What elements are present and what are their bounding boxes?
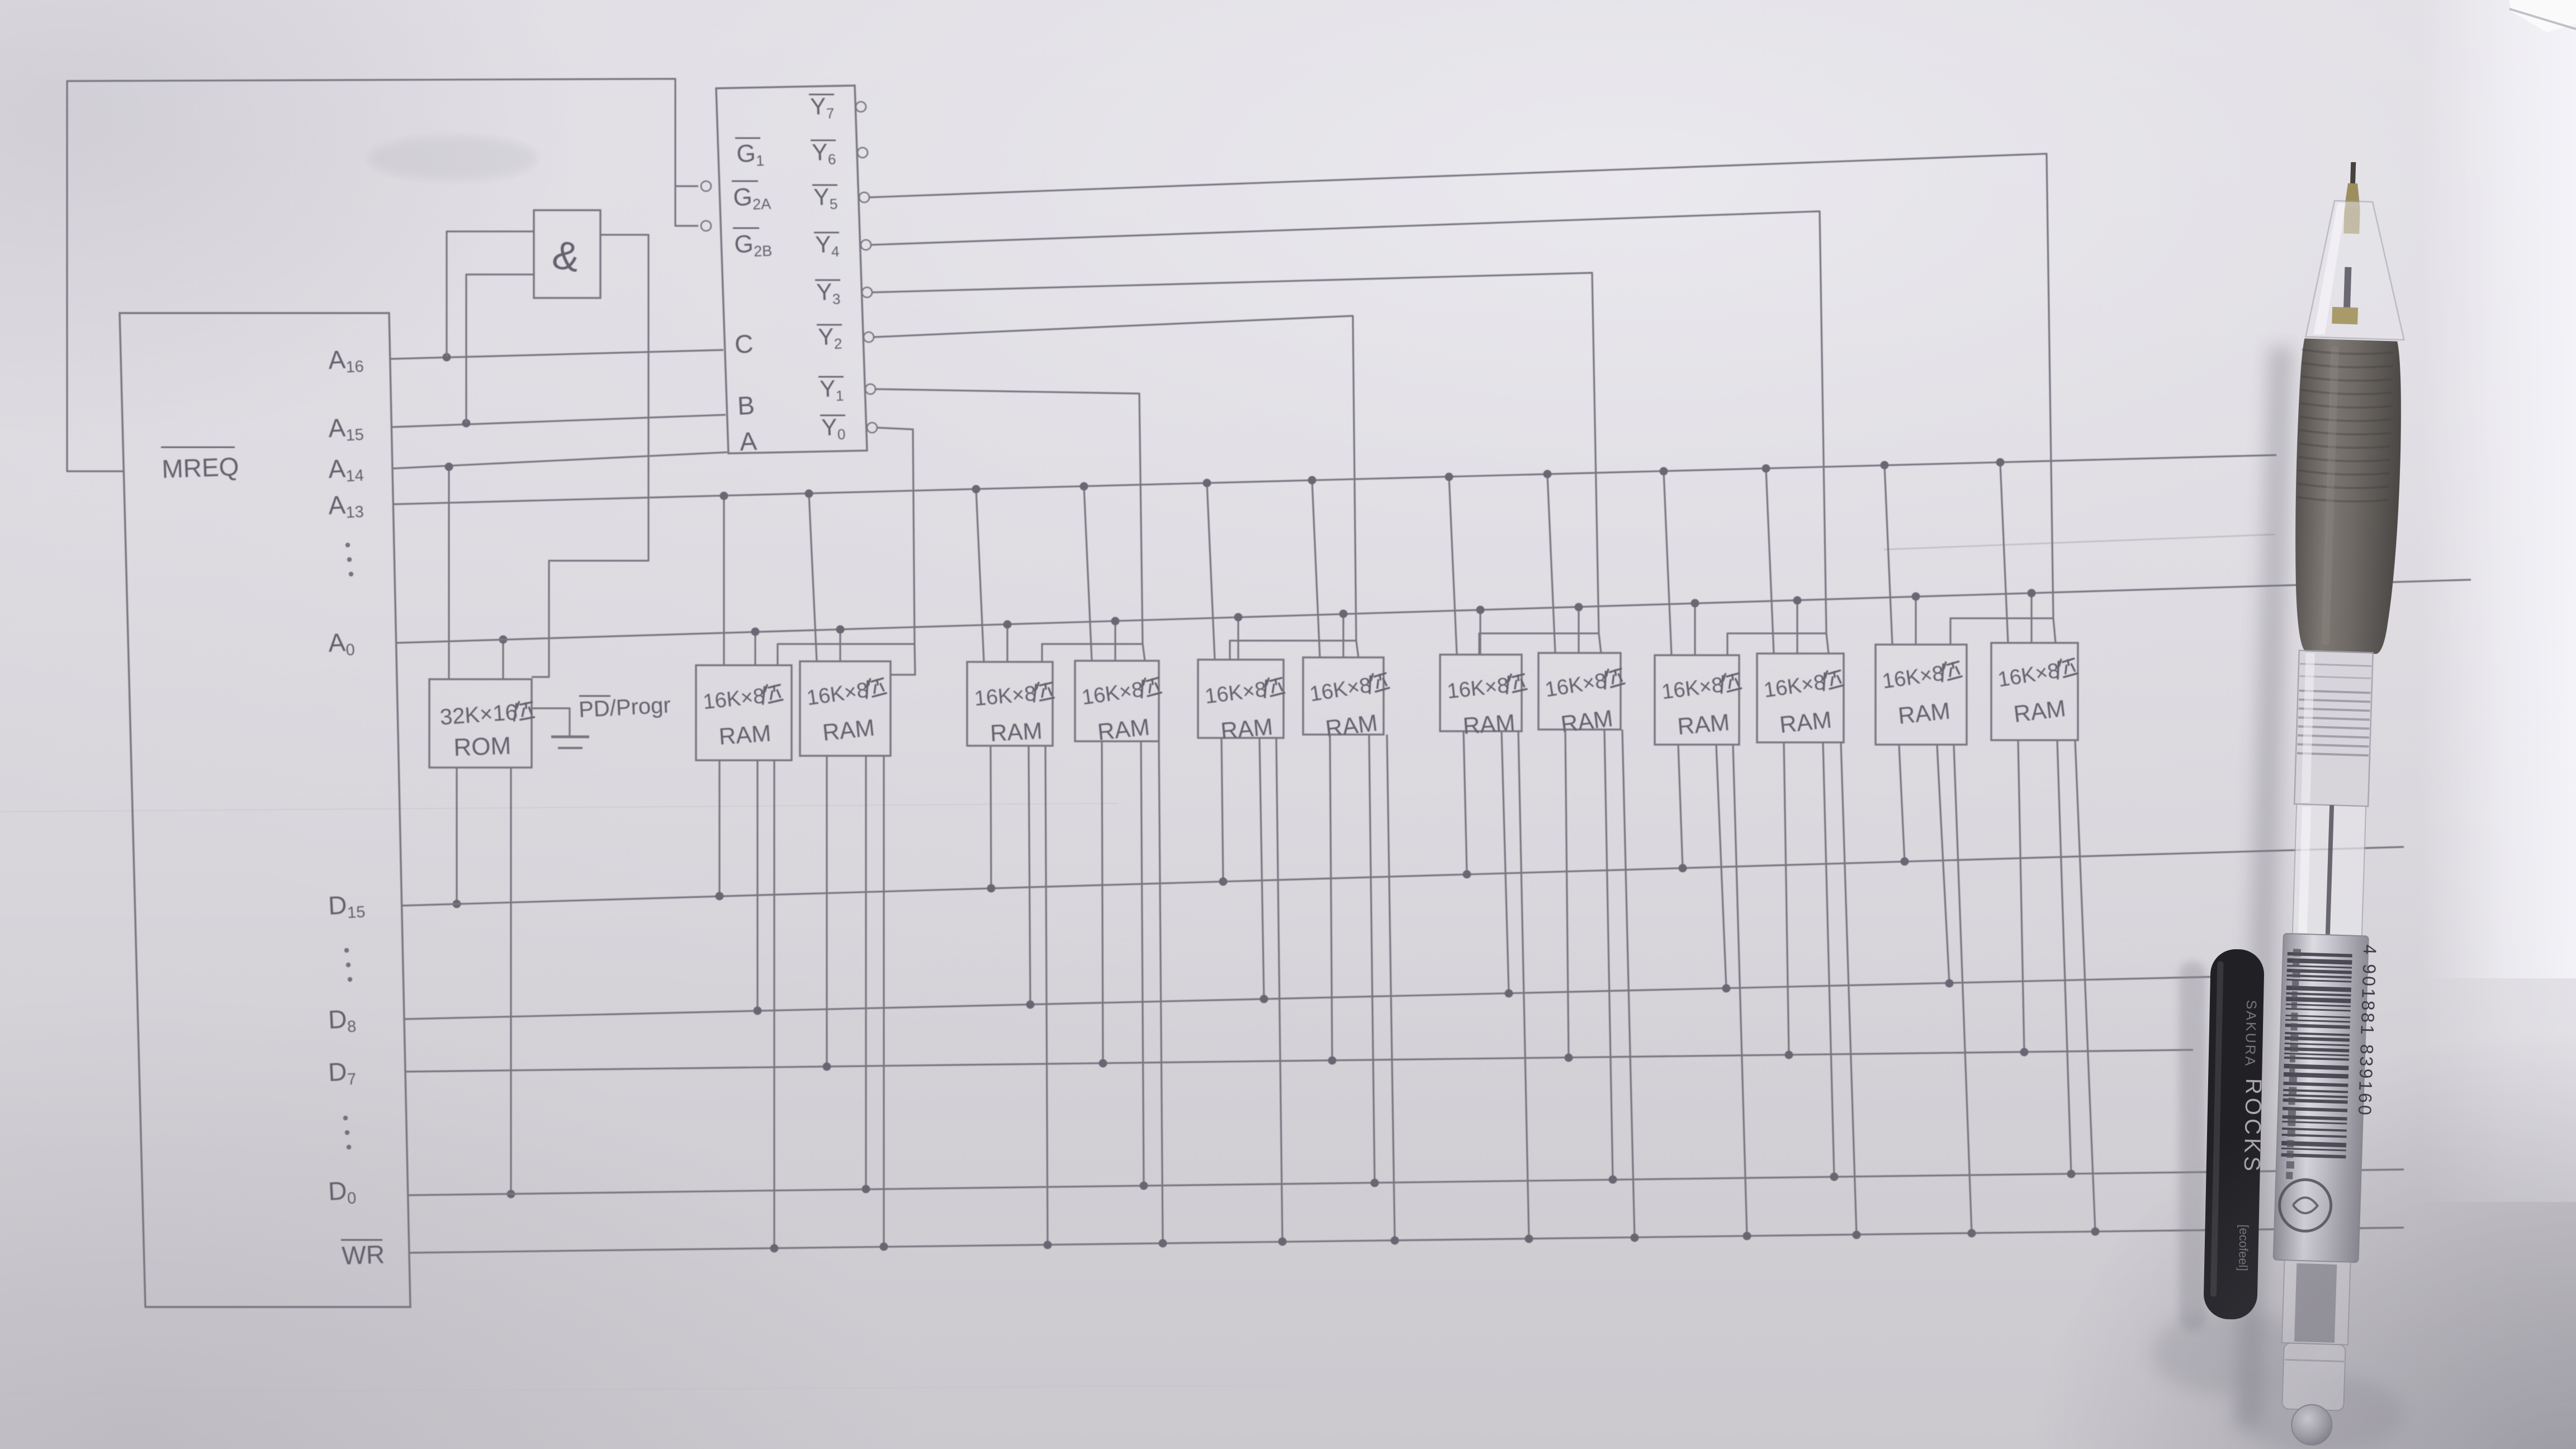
svg-text:RAM: RAM bbox=[989, 717, 1043, 746]
node RAM1 on WR bus bbox=[770, 1244, 779, 1253]
node RAM6 on A13 bus bbox=[1308, 476, 1317, 485]
wire RAM4 D0 pin bbox=[1141, 741, 1144, 1186]
pencil tail cap bbox=[2282, 1343, 2346, 1410]
RAM chip U15 16Kx8 (RAM11) bbox=[1876, 645, 1967, 745]
wire RAM9 WR pin bbox=[1733, 745, 1747, 1236]
node RAM1 on A13 bus bbox=[720, 492, 728, 500]
wire RAM8 A13 pin bbox=[1547, 474, 1555, 653]
wire select jog to RAM7 bbox=[1479, 633, 1599, 655]
node RAM11 on D8 bus bbox=[1945, 979, 1954, 988]
wire ROM D0 pin bbox=[510, 768, 512, 1194]
svg-text:RAM: RAM bbox=[718, 720, 771, 750]
node RAM7 on D15 bus bbox=[1463, 870, 1471, 879]
wire RAM2 A13 pin bbox=[809, 494, 817, 661]
node RAM5 on D15 bus bbox=[1219, 878, 1228, 886]
node RAM11 on A0 bus bbox=[1912, 593, 1920, 601]
wire RAM3 D8 pin bbox=[1029, 746, 1030, 1005]
pin bubble Y5 bbox=[859, 192, 869, 202]
pin bubble Y1 bbox=[865, 384, 875, 394]
pencil rubber grip bbox=[2291, 338, 2404, 655]
wire ROM A14 pin bbox=[448, 467, 449, 679]
RAM chip U16 16Kx8 (RAM12) bbox=[1991, 643, 2078, 740]
wire RAM3 A0 pin bbox=[1006, 624, 1008, 662]
node RAM8 on A13 bus bbox=[1543, 470, 1552, 479]
RAM chip U14 16Kx8 (RAM10) bbox=[1757, 654, 1844, 742]
node RAM3 on A0 bus bbox=[1003, 621, 1012, 629]
node RAM8 on D7 bus bbox=[1565, 1054, 1573, 1062]
node on A16 wire bbox=[443, 353, 451, 362]
ground symbol bbox=[551, 736, 589, 738]
node RAM7 on A0 bus bbox=[1476, 606, 1485, 614]
pencil brass tip bbox=[2345, 183, 2361, 209]
wire RAM7 WR pin bbox=[1518, 731, 1529, 1239]
node RAM5 on WR bus bbox=[1278, 1238, 1287, 1246]
wire MREQ from CPU to decoder enables bbox=[67, 79, 698, 471]
svg-text:RAM: RAM bbox=[1220, 713, 1274, 744]
wire D7 data bus bbox=[405, 1050, 2193, 1072]
wire faint erased smudge bbox=[369, 137, 537, 179]
wire select into RAM12 bbox=[2053, 618, 2056, 643]
wire ROM D15 pin bbox=[456, 768, 457, 904]
wire RAM2 D0 pin bbox=[865, 756, 866, 1189]
CPU block U1 bbox=[120, 313, 410, 1307]
wire RAM12 D0 pin bbox=[2057, 740, 2071, 1174]
wire select jog to RAM9 bbox=[1727, 633, 1826, 655]
pin bubble Y0 bbox=[867, 423, 877, 433]
wire RAM8 WR pin bbox=[1622, 730, 1635, 1238]
wire A16 to decoder C bbox=[390, 350, 723, 359]
node RAM7 on A13 bus bbox=[1445, 473, 1453, 481]
wire RAM6 D7 pin bbox=[1330, 735, 1332, 1060]
node RAM5 on A13 bus bbox=[1203, 479, 1211, 487]
wire RAM7 D15 pin bbox=[1464, 731, 1467, 874]
node RAM8 on D0 bus bbox=[1609, 1176, 1617, 1184]
wire RAM8 D0 pin bbox=[1604, 730, 1613, 1180]
RAM chip U8 16Kx8 (RAM4) bbox=[1075, 661, 1159, 741]
node RAM1 on D8 bus bbox=[754, 1007, 762, 1015]
node RAM10 on D7 bus bbox=[1785, 1051, 1793, 1059]
wire A14 to decoder A bbox=[392, 452, 727, 468]
wire WR write strobe bus bbox=[409, 1228, 2404, 1253]
wire RAM10 WR pin bbox=[1841, 742, 1857, 1235]
pencil silver label bbox=[2274, 934, 2369, 1262]
node ROM on D0 bus bbox=[507, 1190, 515, 1199]
wire RAM7 A0 pin bbox=[1479, 610, 1481, 655]
wire D15 data bus bbox=[402, 847, 2404, 906]
wire RAM5 A0 pin bbox=[1237, 617, 1239, 660]
wire stub to G2A bbox=[675, 185, 698, 187]
node RAM2 on D0 bus bbox=[862, 1185, 870, 1194]
wire A15 branch to AND input 2 bbox=[466, 274, 534, 423]
pencil clear body upper bbox=[2293, 804, 2366, 936]
wire RAM3 WR pin bbox=[1045, 746, 1048, 1245]
node RAM1 on A0 bus bbox=[751, 628, 760, 636]
RAM chip U7 16Kx8 (RAM3) bbox=[967, 662, 1053, 746]
node RAM6 on D0 bus bbox=[1371, 1179, 1379, 1187]
pen clip shadow bbox=[2179, 962, 2206, 1330]
node RAM2 on A0 bus bbox=[836, 626, 845, 634]
node RAM12 on A0 bus bbox=[2028, 589, 2036, 598]
shadow bottom right corner bbox=[2028, 1029, 2576, 1449]
wire D8 data bus bbox=[404, 977, 2220, 1019]
RAM chip U10 16Kx8 (RAM6) bbox=[1303, 657, 1384, 735]
wire RAM5 D8 pin bbox=[1259, 738, 1264, 999]
pencil clear cone bbox=[2305, 200, 2408, 340]
label ellipsis data low bbox=[343, 1116, 348, 1120]
wire RAM12 D7 pin bbox=[2018, 740, 2024, 1052]
wire RAM8 D7 pin bbox=[1565, 730, 1569, 1058]
node RAM10 on WR bus bbox=[1853, 1231, 1861, 1239]
node RAM9 on D8 bus bbox=[1722, 984, 1731, 993]
wire RAM4 D7 pin bbox=[1102, 741, 1103, 1063]
svg-text:MREQ: MREQ bbox=[162, 452, 240, 484]
wire RAM11 D15 pin bbox=[1899, 745, 1905, 861]
wire RAM6 WR pin bbox=[1387, 735, 1395, 1240]
wire RAM9 A0 pin bbox=[1694, 603, 1696, 655]
wire ROM PD pin to ground bbox=[532, 708, 570, 736]
node RAM2 on A13 bus bbox=[805, 490, 813, 498]
wire Y3 output to RAM pair 4 select bbox=[872, 273, 1599, 633]
node RAM7 on D8 bus bbox=[1505, 989, 1513, 998]
black pen clip bbox=[2203, 949, 2269, 1320]
node RAM8 on WR bus bbox=[1631, 1234, 1639, 1242]
node RAM10 on A13 bus bbox=[1762, 465, 1770, 473]
label barcode bbox=[2288, 952, 2352, 958]
wire RAM1 WR pin bbox=[773, 760, 775, 1248]
wire RAM12 A0 pin bbox=[2030, 593, 2032, 643]
node RAM9 on A0 bus bbox=[1691, 599, 1699, 608]
wire RAM2 A0 pin bbox=[839, 629, 841, 661]
wire RAM12 WR pin bbox=[2075, 740, 2095, 1232]
node RAM4 on D0 bus bbox=[1140, 1182, 1148, 1190]
wire A15 to decoder B bbox=[391, 415, 726, 427]
node RAM9 on D15 bus bbox=[1679, 864, 1687, 873]
pin bubble G2A bbox=[701, 181, 711, 191]
wire Y4 output to RAM pair 5 select bbox=[871, 211, 1826, 633]
node RAM12 on D0 bus bbox=[2067, 1170, 2076, 1178]
wire RAM4 A0 pin bbox=[1114, 621, 1116, 661]
node ROM on A0 bus bbox=[499, 636, 508, 644]
svg-text:RAM: RAM bbox=[821, 714, 876, 745]
label eco logo bbox=[2279, 1179, 2332, 1232]
pencil clear body lower bbox=[2282, 1260, 2351, 1345]
wire RAM1 A13 pin bbox=[723, 496, 724, 665]
node ROM on D15 bus bbox=[453, 900, 461, 908]
node RAM12 on A13 bus bbox=[1996, 458, 2005, 467]
wire select jog to RAM1 bbox=[778, 644, 915, 665]
svg-text:RAM: RAM bbox=[1462, 709, 1516, 739]
node RAM5 on D8 bus bbox=[1260, 995, 1268, 1003]
node RAM9 on A13 bus bbox=[1660, 467, 1668, 476]
node RAM12 on WR bus bbox=[2091, 1228, 2100, 1236]
svg-text:ROM: ROM bbox=[453, 732, 512, 761]
pin bubble Y6 bbox=[858, 148, 868, 158]
RAM chip U12 16Kx8 (RAM8) bbox=[1538, 653, 1621, 730]
wire Y1 output to RAM pair 2 select bbox=[875, 389, 1143, 644]
wire RAM2 D7 pin bbox=[826, 756, 827, 1067]
wire AND output to ROM select bbox=[532, 235, 648, 677]
wire ROM A0 pin bbox=[502, 640, 504, 679]
node RAM4 on WR bus bbox=[1159, 1239, 1167, 1248]
RAM chip U13 16Kx8 (RAM9) bbox=[1655, 655, 1739, 745]
wire RAM8 A0 pin bbox=[1578, 607, 1579, 653]
pencil tail ball bbox=[2291, 1404, 2332, 1446]
wire select jog to RAM11 bbox=[1950, 618, 2053, 645]
node on A15 wire bbox=[462, 419, 471, 428]
wire RAM2 WR pin bbox=[883, 756, 884, 1247]
decoder 74138 U2 bbox=[716, 86, 867, 453]
svg-text:WR: WR bbox=[342, 1239, 385, 1270]
svg-text:PD/Progr: PD/Progr bbox=[578, 693, 671, 722]
wire faint erased line bbox=[1884, 534, 2275, 550]
wire A13 address bus bbox=[393, 455, 2276, 504]
svg-text:SAKURA: SAKURA bbox=[2242, 1000, 2260, 1067]
label ellipsis address bbox=[345, 543, 350, 547]
wire Y5 output to RAM pair 6 select bbox=[869, 154, 2053, 618]
node RAM4 on D7 bus bbox=[1099, 1059, 1107, 1068]
wire RAM11 A13 pin bbox=[1884, 465, 1892, 645]
RAM chip U6 16Kx8 (RAM2) bbox=[800, 661, 891, 756]
node RAM11 on D15 bus bbox=[1901, 858, 1909, 866]
wire select into RAM8 bbox=[1599, 633, 1601, 653]
pin bubble Y7 bbox=[856, 102, 866, 112]
wire RAM3 D15 pin bbox=[991, 746, 991, 888]
node RAM11 on A13 bus bbox=[1881, 461, 1889, 470]
pen shadow bbox=[2236, 347, 2293, 1426]
AND gate U3 bbox=[534, 210, 600, 298]
svg-text:RAM: RAM bbox=[1096, 713, 1151, 745]
wire RAM6 A0 pin bbox=[1342, 614, 1344, 657]
RAM chip U11 16Kx8 (RAM7) bbox=[1440, 655, 1522, 731]
node RAM3 on A13 bus bbox=[972, 485, 981, 494]
wire RAM10 D7 pin bbox=[1784, 742, 1789, 1055]
wire select into RAM10 bbox=[1826, 633, 1829, 654]
node RAM1 on D15 bus bbox=[716, 892, 724, 901]
wire D0 data bus bbox=[408, 1169, 2404, 1195]
wire RAM12 A13 pin bbox=[2000, 462, 2008, 643]
node RAM6 on A0 bus bbox=[1339, 610, 1348, 618]
node RAM6 on WR bus bbox=[1391, 1237, 1399, 1245]
wire RAM1 D8 pin bbox=[756, 760, 758, 1011]
node RAM10 on D0 bus bbox=[1830, 1173, 1839, 1181]
pin bubble G2B bbox=[701, 221, 711, 231]
RAM chip U5 16Kx8 (RAM1) bbox=[696, 665, 792, 760]
wire RAM11 A0 pin bbox=[1915, 596, 1916, 645]
svg-text:A: A bbox=[739, 426, 758, 456]
node RAM6 on D7 bus bbox=[1328, 1057, 1337, 1065]
wire select to RAM2 right edge bbox=[891, 644, 915, 675]
node RAM9 on WR bus bbox=[1743, 1232, 1751, 1240]
ROM chip U4 32Kx16 bbox=[429, 679, 532, 768]
svg-text:RAM: RAM bbox=[1897, 697, 1952, 728]
wire RAM10 A13 pin bbox=[1766, 468, 1774, 654]
wire RAM5 A13 pin bbox=[1207, 483, 1215, 660]
label recycling text bbox=[2293, 949, 2301, 956]
wire Y2 output to RAM pair 3 select bbox=[874, 316, 1356, 641]
pin bubble Y2 bbox=[864, 332, 874, 342]
pencil threaded barrel bbox=[2294, 650, 2373, 806]
node RAM4 on A13 bus bbox=[1080, 482, 1088, 491]
wire RAM1 D15 pin bbox=[718, 760, 720, 896]
wire RAM7 D8 pin bbox=[1502, 731, 1509, 993]
svg-text:C: C bbox=[734, 329, 754, 359]
wire select into RAM6 bbox=[1356, 641, 1358, 657]
wire A16 branch to AND input 1 bbox=[447, 231, 534, 357]
wire Y0 output to RAM pair 1 select bbox=[877, 428, 915, 644]
node RAM7 on WR bus bbox=[1525, 1235, 1533, 1243]
wire RAM1 A0 pin bbox=[754, 632, 756, 665]
pin bubble Y3 bbox=[862, 287, 872, 297]
node RAM3 on D8 bus bbox=[1026, 1001, 1035, 1009]
wire RAM4 A13 pin bbox=[1084, 486, 1092, 661]
node ROM on A14 wire bbox=[445, 463, 453, 471]
svg-text:RAM: RAM bbox=[1778, 706, 1833, 737]
wire A0 address bus bbox=[396, 580, 2471, 643]
svg-text:B: B bbox=[737, 390, 755, 420]
mechanical pencil bbox=[2266, 160, 2409, 1447]
wire RAM5 D15 pin bbox=[1221, 738, 1223, 882]
pin bubble Y4 bbox=[861, 240, 871, 250]
wire RAM9 D15 pin bbox=[1678, 745, 1683, 868]
node RAM12 on D7 bus bbox=[2020, 1048, 2029, 1057]
node RAM11 on WR bus bbox=[1968, 1229, 1976, 1238]
wire RAM3 A13 pin bbox=[976, 489, 984, 662]
node RAM4 on A0 bus bbox=[1111, 617, 1120, 626]
node RAM5 on A0 bus bbox=[1234, 613, 1243, 622]
wire RAM6 A13 pin bbox=[1312, 480, 1320, 657]
wire select jog to RAM5 bbox=[1230, 641, 1356, 660]
node RAM2 on D7 bus bbox=[823, 1063, 831, 1071]
pencil lead tip bbox=[2350, 162, 2356, 186]
node RAM8 on A0 bus bbox=[1575, 603, 1583, 612]
wire RAM7 A13 pin bbox=[1449, 477, 1457, 655]
wire RAM10 A0 pin bbox=[1796, 600, 1798, 654]
wire RAM11 D8 pin bbox=[1937, 745, 1949, 983]
wire RAM5 WR pin bbox=[1276, 738, 1282, 1242]
svg-text:RAM: RAM bbox=[1677, 709, 1731, 740]
wire select into RAM4 bbox=[1143, 644, 1145, 661]
RAM chip U9 16Kx8 (RAM5) bbox=[1198, 660, 1284, 738]
wire RAM9 A13 pin bbox=[1664, 471, 1671, 655]
node RAM3 on WR bus bbox=[1044, 1241, 1052, 1249]
node RAM10 on A0 bus bbox=[1793, 596, 1802, 605]
wire RAM6 D0 pin bbox=[1369, 735, 1375, 1183]
label ellipsis data high bbox=[344, 948, 349, 953]
wire RAM11 WR pin bbox=[1954, 745, 1972, 1233]
wire RAM4 WR pin bbox=[1159, 741, 1163, 1243]
node RAM3 on D15 bus bbox=[987, 884, 996, 893]
wire RAM9 D8 pin bbox=[1716, 745, 1726, 988]
wire select jog to RAM3 bbox=[1042, 644, 1143, 662]
node RAM2 on WR bus bbox=[880, 1243, 888, 1251]
wire RAM10 D0 pin bbox=[1823, 742, 1834, 1177]
